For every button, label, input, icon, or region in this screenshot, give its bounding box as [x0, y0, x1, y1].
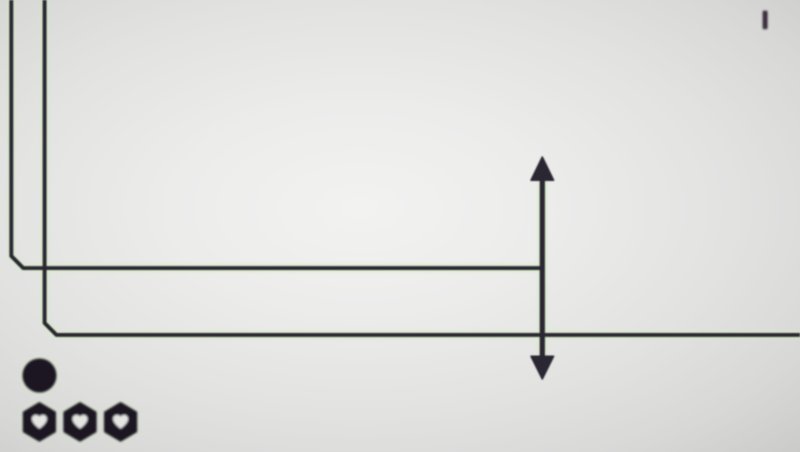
level marker I (top right) [763, 11, 768, 30]
life hexagon 2 with heart cutout [65, 403, 96, 440]
wire: left vertical wire 2 bending into bottom horizontal wire to right edge [45, 0, 800, 335]
life hexagon 1 with heart cutout [24, 403, 55, 440]
life hexagon 3 with heart cutout [105, 403, 136, 440]
lives halo [24, 403, 136, 440]
arrowhead up [531, 157, 554, 180]
wire glow: left vertical wire 1 into horizontal wire at y=268 [11, 0, 542, 268]
button dot (filled circle above lives) [21, 357, 57, 393]
arrowhead down [531, 356, 554, 379]
wire: left vertical wire 1 bending into horizontal wire ending at arrow shaft [11, 0, 542, 268]
wire glow: left vertical wire 2 into horizontal wire at y=335 [45, 0, 800, 335]
wire glow: arrow shaft [538, 166, 546, 370]
arrow shaft (vertical double-headed arrow) [540, 166, 545, 370]
